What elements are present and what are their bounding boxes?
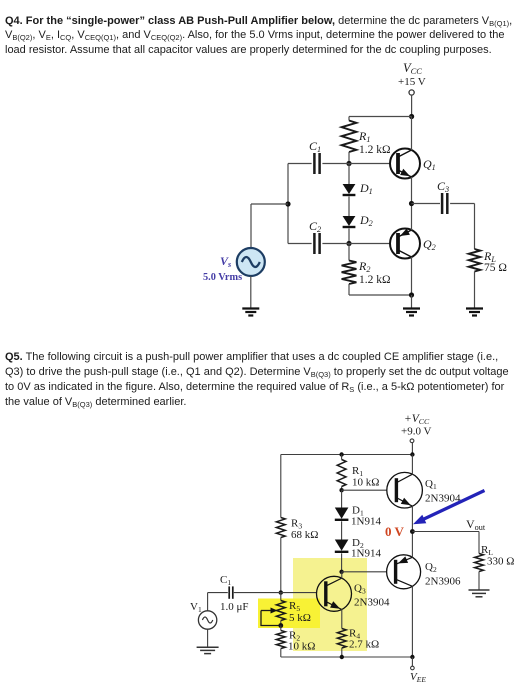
svg-text:0 V: 0 V <box>385 524 405 539</box>
wire top rail (circuit 1) <box>349 116 412 118</box>
wire C1 to base node Q1 <box>322 163 349 165</box>
wire R2 bottom to rail <box>280 649 282 658</box>
wire down to RL (circuit 2) <box>478 532 480 554</box>
svg-text:1N914: 1N914 <box>351 516 381 528</box>
annotation blue arrow to output node <box>413 491 485 525</box>
junction ground rail (circuit 1) <box>409 292 414 297</box>
resistor RL 330 ohm (circuit 2) <box>475 554 484 572</box>
svg-text:D1: D1 <box>359 181 373 196</box>
svg-text:+15 V: +15 V <box>398 76 426 88</box>
junction rail VCC (circuit 2) <box>410 452 414 456</box>
transistor Q1 NPN (circuit 1) <box>390 149 420 179</box>
wire Q2 collector to ground rail <box>411 257 413 295</box>
svg-text:2N3904: 2N3904 <box>354 597 390 609</box>
wire VEE stub (circuit 2) <box>411 657 413 666</box>
wire D1 to D2 (circuit 2) <box>341 521 343 539</box>
wire R3 top lead (circuit 2) <box>280 455 282 518</box>
resistor R4 2.7k (circuit 2) <box>337 629 346 649</box>
resistor R1 1.2k (circuit 1) <box>342 121 357 153</box>
potentiometer wiper arrow R5 <box>261 608 278 614</box>
wire ground stub (circuit 1) <box>411 295 413 308</box>
wire Q1 collector (circuit 2) <box>411 455 413 475</box>
svg-text:VCC: VCC <box>403 61 422 76</box>
diode D2 (circuit 1) <box>343 216 356 227</box>
diode D1 1N914 (circuit 2) <box>335 508 349 520</box>
wire R4 bottom to rail <box>341 648 343 657</box>
node R5 / R2 junction <box>278 623 283 628</box>
svg-text:C1: C1 <box>220 574 231 587</box>
capacitor C3 (circuit 1) <box>442 193 447 214</box>
svg-text:Vs: Vs <box>220 254 231 269</box>
resistor R2 10k (circuit 2) <box>276 631 285 649</box>
node base Q1 / R1 / D1 / C1 <box>346 161 351 166</box>
svg-text:68 kΩ: 68 kΩ <box>291 529 318 541</box>
terminal VCC +15V (circuit 1) <box>409 90 414 95</box>
wire node to R2 <box>348 244 350 261</box>
wire Q1 emitter to output node <box>411 177 413 204</box>
wire D2 to Q3 collector node <box>341 553 343 572</box>
svg-text:R2: R2 <box>358 259 370 274</box>
wire base Q1 <box>349 163 390 165</box>
source Vs sine (circuit 1) <box>237 248 265 276</box>
diode D2 1N914 (circuit 2) <box>335 540 349 552</box>
wire C1 to base node (circuit 2) <box>234 592 281 594</box>
wire R3 bottom to base node Q3 <box>280 538 282 593</box>
wire output to RL (circuit 2) <box>412 531 479 533</box>
node base Q3 / C1 / R3 / R5 <box>279 590 283 594</box>
node base Q1 (circuit 2) <box>339 488 343 492</box>
wire wiper loop to R5 bottom <box>261 611 281 626</box>
svg-text:Q2: Q2 <box>425 561 437 574</box>
svg-text:2N3906: 2N3906 <box>425 576 461 588</box>
svg-text:C2: C2 <box>309 219 321 234</box>
wire Vs to bus <box>251 203 288 205</box>
wire Vs bottom lead <box>250 276 252 308</box>
capacitor C2 (circuit 1) <box>314 233 319 254</box>
wire output to C3 <box>412 203 441 205</box>
wire C3 to RL corner <box>450 203 474 205</box>
junction VCC rail <box>409 114 414 119</box>
terminal +VCC (circuit 2) <box>410 439 414 443</box>
wire D2 to node C2 <box>348 229 350 244</box>
wire base Q1 (circuit 2) <box>342 489 387 491</box>
terminal -VEE (circuit 2) <box>411 666 415 670</box>
wire RL to ground (circuit 2) <box>478 572 480 590</box>
svg-text:Q2: Q2 <box>423 237 436 252</box>
problem Q5 text <box>5 350 516 411</box>
junction Vs tap on bus <box>285 201 290 206</box>
resistor R2 1.2k (circuit 1) <box>342 261 357 285</box>
wire RL to ground <box>474 272 476 308</box>
svg-text:+9.0 V: +9.0 V <box>401 426 432 438</box>
wire VCC stub (circuit 2) <box>411 443 413 455</box>
transistor Q3 2N3904 (circuit 2) <box>317 576 352 611</box>
wire V1 to C1 (circuit 2) <box>208 592 228 594</box>
svg-text:5.0 Vrms: 5.0 Vrms <box>203 272 242 283</box>
transistor Q1 2N3904 (circuit 2) <box>387 472 423 508</box>
node base Q2 / D2 / C2 / R2 <box>346 241 351 246</box>
wire Q2 emitter up to output node <box>411 532 413 558</box>
resistor RL 75 ohm (circuit 1) <box>469 249 481 272</box>
ground below V1 (circuit 2) <box>197 647 219 653</box>
svg-text:R1: R1 <box>358 129 370 144</box>
svg-text:10 kΩ: 10 kΩ <box>352 477 379 489</box>
resistor R3 68k (circuit 2) <box>276 518 285 538</box>
junction rail VEE (circuit 2) <box>410 655 414 659</box>
node output 0V (circuit 2) <box>410 529 415 534</box>
wire left bus to C2 <box>288 243 312 245</box>
wire bottom rail (circuit 1) <box>349 294 412 296</box>
wire VCC terminal to rail <box>411 95 413 116</box>
wire down to RL <box>474 204 476 250</box>
svg-text:1N914: 1N914 <box>351 548 381 560</box>
wire node to D1 (circuit 2) <box>341 490 343 507</box>
svg-text:V1: V1 <box>190 601 202 614</box>
wire base Q2 (circuit 2) <box>342 571 387 573</box>
svg-text:1.2 kΩ: 1.2 kΩ <box>359 144 391 156</box>
wire R2 bottom to rail <box>348 284 350 295</box>
svg-text:75 Ω: 75 Ω <box>484 262 507 274</box>
svg-text:Q1: Q1 <box>425 478 437 491</box>
wire bottom rail (circuit 2) <box>281 656 413 658</box>
junction rail R1 (circuit 2) <box>339 452 343 456</box>
svg-text:C1: C1 <box>309 139 321 154</box>
wire V1 bottom lead (circuit 2) <box>207 629 209 647</box>
wire R2 top lead (circuit 2) <box>280 626 282 631</box>
wire output node to Q2 emitter <box>411 204 413 231</box>
wire V1 top lead (circuit 2) <box>207 593 209 611</box>
wire D1 to D2 <box>348 197 350 217</box>
wire Q1 emitter to output node <box>411 506 413 532</box>
svg-text:D2: D2 <box>359 213 373 228</box>
wire top rail (circuit 2) <box>281 454 413 456</box>
capacitor C1 1.0uF (circuit 2) <box>229 586 233 598</box>
ground below RL (circuit 1) <box>466 309 483 316</box>
resistor R5 5k potentiometer <box>276 601 285 621</box>
wire R1 bottom lead (circuit 2) <box>341 487 343 491</box>
transistor Q2 PNP (circuit 1) <box>390 229 420 259</box>
svg-text:5 kΩ: 5 kΩ <box>289 612 311 624</box>
wire left bus to C1 <box>288 163 312 165</box>
highlight yellow around Q3 <box>293 558 367 651</box>
highlight yellow around R5 <box>258 599 320 629</box>
wire R1 bottom lead <box>348 152 350 164</box>
wire base Q3 (circuit 2) <box>281 592 317 594</box>
svg-text:VEE: VEE <box>410 671 426 684</box>
wire Vs top lead <box>250 204 252 248</box>
svg-text:+VCC: +VCC <box>404 413 430 426</box>
capacitor C1 (circuit 1) <box>314 153 319 174</box>
wire left bus vertical (circuit 1) <box>287 164 289 244</box>
svg-text:330 Ω: 330 Ω <box>487 556 514 568</box>
wire Q2 collector down to rail <box>411 586 413 657</box>
ground below RL (circuit 2) <box>469 590 490 597</box>
svg-text:1.0 μF: 1.0 μF <box>220 601 249 613</box>
wire base Q2 <box>349 243 390 245</box>
wire R1 top lead <box>348 117 350 121</box>
junction rail R4 (circuit 2) <box>340 655 344 659</box>
problem Q4 text <box>5 14 516 58</box>
source V1 sine (circuit 2) <box>198 611 216 629</box>
wire Q3 collector (circuit 2) <box>341 572 343 579</box>
svg-text:C3: C3 <box>437 179 449 194</box>
svg-text:Vout: Vout <box>466 517 486 532</box>
wire R1 top lead (circuit 2) <box>341 455 343 460</box>
node Q3 collector / Q2 base <box>339 570 343 574</box>
svg-text:1.2 kΩ: 1.2 kΩ <box>359 274 391 286</box>
wire R5 to R2 lead <box>280 621 282 626</box>
wire Q1 collector <box>411 117 413 151</box>
svg-text:Q1: Q1 <box>423 157 436 172</box>
resistor R1 10k (circuit 2) <box>337 460 346 487</box>
diode D1 (circuit 1) <box>343 184 356 195</box>
ground below Vs (circuit 1) <box>242 309 259 316</box>
svg-text:2.7 kΩ: 2.7 kΩ <box>349 639 379 651</box>
node output (circuit 1) <box>409 201 414 206</box>
transistor Q2 2N3906 PNP (circuit 2) <box>387 555 421 589</box>
wire C2 to base node Q2 <box>322 243 349 245</box>
wire node to D1 <box>348 164 350 185</box>
svg-text:10 kΩ: 10 kΩ <box>288 641 315 653</box>
wire Q3 emitter to R4 <box>341 609 343 629</box>
ground below Q2 (circuit 1) <box>403 309 420 316</box>
wire node to R5 (circuit 2) <box>280 593 282 601</box>
